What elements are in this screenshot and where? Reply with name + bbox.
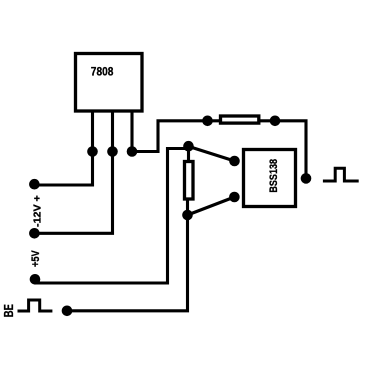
resistor R2 (horizontal) body [221,116,259,123]
junction dot: 7808 pin 3 [127,146,138,157]
pulse waveform symbol at BE input [18,300,53,311]
wire: -12V plus terminal to 7808 pin 1 [35,112,93,185]
resistor R1 (vertical) body [185,162,194,200]
wire: diagonal lead to BSS138 lower left terminal [188,197,235,215]
transistor Q1 BSS138 body [244,150,296,207]
terminal dot: BE input [62,306,73,317]
junction dot: node R1 bottom [182,210,193,221]
terminal dot: resistor R2 right [270,116,281,127]
wire: 7808 pin 3 output via resistor R2 net to BSS138 right terminal [132,112,306,178]
terminal dot: BSS138 upper left pin [229,156,240,167]
terminal dot: +5V [30,274,41,285]
svg-text:BSS138: BSS138 [268,159,280,193]
voltage regulator U1 7808 body [76,54,143,112]
svg-text:-12V +: -12V + [33,195,44,227]
wire: BE input to resistor R1 bottom [67,200,188,311]
junction dot: 7808 pin 1 [87,146,98,157]
terminal dot: BSS138 lower left pin [229,192,240,203]
terminal dot: -12V plus [29,179,40,190]
wire: -12V minus terminal to 7808 pin 2 [34,112,112,233]
wire: +5V terminal to resistor R1 top junction [35,149,189,284]
junction dot: node R1 top [183,141,194,152]
terminal dot: -12V minus [29,228,40,239]
svg-text:+5V: +5V [30,250,42,267]
wire: diagonal lead to BSS138 upper left terminal [189,146,235,161]
svg-text:BE: BE [1,304,16,317]
terminal dot: BSS138 right pin [301,173,312,184]
junction dot: 7808 pin 2 [107,146,118,157]
wire: resistor R1 top stub [187,146,190,161]
terminal dot: resistor R2 left [202,116,213,127]
pulse waveform symbol at BSS138 output [323,168,359,181]
svg-text:7808: 7808 [91,66,114,78]
